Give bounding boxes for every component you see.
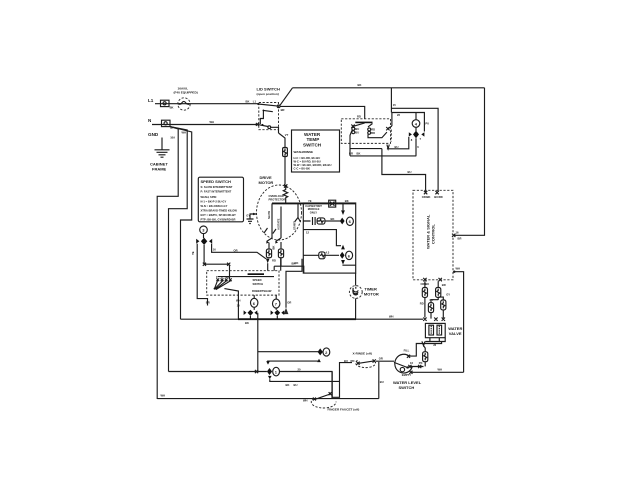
box 4 outline bbox=[392, 113, 425, 132]
wire control to right vertical bbox=[454, 272, 463, 373]
svg-text:OR: OR bbox=[234, 249, 238, 253]
svg-text:SWITCH: SWITCH bbox=[303, 143, 322, 148]
L-link row bbox=[303, 230, 341, 246]
wire neutral drop B bbox=[169, 127, 188, 372]
svg-text:BR: BR bbox=[458, 237, 462, 241]
fuse 16A/UL F40 bbox=[178, 98, 190, 110]
resistor R6 bbox=[266, 249, 271, 258]
contact on box left bbox=[386, 126, 392, 130]
connector diamonds speed left bbox=[244, 310, 258, 316]
svg-text:BU/RD: BU/RD bbox=[434, 195, 443, 199]
winding AGITATE bbox=[280, 207, 282, 239]
svg-text:VT: VT bbox=[285, 133, 289, 137]
svg-text:16: 16 bbox=[456, 231, 459, 235]
svg-text:16: 16 bbox=[213, 247, 216, 251]
diamond row2 bbox=[340, 252, 345, 259]
circle 2 bbox=[323, 348, 330, 356]
wire link 2 to 1 bbox=[268, 361, 319, 363]
svg-text:26: 26 bbox=[397, 113, 400, 117]
wire fuse to motor bbox=[284, 157, 286, 185]
wire circle4 vertical bbox=[415, 113, 417, 156]
svg-text:WH: WH bbox=[389, 315, 394, 319]
wire neutral into switch bbox=[224, 289, 238, 320]
wire triangle to right edge bbox=[343, 264, 356, 267]
lid switch lower contact bbox=[256, 123, 279, 133]
terminal crosses top bbox=[424, 191, 439, 194]
control dashed box bbox=[413, 190, 453, 279]
resistor RV4 bbox=[441, 300, 446, 310]
svg-text:SWITCH: SWITCH bbox=[399, 385, 415, 390]
winding SLOW bbox=[271, 203, 273, 238]
svg-text:BU: BU bbox=[395, 145, 399, 149]
wire valve to resistor R5 bbox=[424, 346, 426, 352]
speed switch inner bus bbox=[218, 276, 274, 278]
terminal X control right bbox=[452, 234, 455, 237]
winding START bbox=[297, 203, 299, 217]
svg-text:WH: WH bbox=[456, 266, 461, 270]
circle 7 speed bbox=[273, 299, 280, 308]
svg-text:(open position): (open position) bbox=[257, 92, 279, 96]
svg-text:GND: GND bbox=[148, 132, 159, 137]
svg-text:7: 7 bbox=[275, 302, 278, 307]
circle 6 speed bbox=[251, 298, 258, 307]
svg-text:PK: PK bbox=[419, 361, 423, 365]
svg-text:OR/BK: OR/BK bbox=[422, 195, 431, 199]
triangle above row1 bbox=[341, 210, 345, 215]
svg-text:FRAME: FRAME bbox=[152, 167, 167, 172]
svg-text:12: 12 bbox=[306, 231, 309, 235]
connector diamonds speed right bbox=[271, 310, 285, 316]
svg-text:(F40 EQUIPPED): (F40 EQUIPPED) bbox=[174, 91, 198, 95]
svg-text:WH: WH bbox=[182, 131, 187, 135]
svg-text:S: SLOW INTERMITTENT: S: SLOW INTERMITTENT bbox=[201, 185, 233, 189]
svg-text:XTRA BRAVO-TIMED KILOW: XTRA BRAVO-TIMED KILOW bbox=[201, 209, 238, 213]
connector triangles and diamond bbox=[409, 132, 412, 136]
x-rinse contact bbox=[356, 359, 376, 367]
wire lid switch to top bus bbox=[280, 88, 293, 106]
wire bottom bus bbox=[157, 398, 379, 400]
svg-text:BU: BU bbox=[380, 380, 384, 384]
wire valve chain left bbox=[425, 281, 443, 318]
wire YE drop bbox=[197, 244, 207, 306]
svg-text:MOTOR: MOTOR bbox=[364, 292, 379, 297]
svg-text:TEMP: TEMP bbox=[307, 137, 320, 142]
wire N to lid switch bbox=[152, 124, 257, 126]
svg-text:L1: L1 bbox=[253, 100, 257, 104]
connector triangle below R6 bbox=[266, 259, 270, 264]
solenoid cold bbox=[437, 325, 442, 335]
contact X-X bbox=[203, 263, 230, 266]
svg-text:P: FAST INTERMITTENT: P: FAST INTERMITTENT bbox=[201, 189, 232, 193]
svg-text:SPEED: SPEED bbox=[253, 278, 262, 282]
svg-text:7: 7 bbox=[420, 137, 422, 141]
wire GND drop bbox=[161, 138, 163, 150]
svg-text:X-RINSE (off): X-RINSE (off) bbox=[353, 352, 372, 356]
wire RD into box right bbox=[280, 258, 282, 271]
wire top to triangle bbox=[342, 203, 344, 210]
svg-text:4: 4 bbox=[415, 121, 418, 126]
resistor row1 bbox=[317, 218, 325, 224]
resistor RV2 bbox=[436, 288, 441, 298]
svg-text:BR: BR bbox=[349, 151, 353, 155]
pressure switch arc bbox=[395, 354, 413, 373]
svg-text:N-1 = BK-P-2 BU-GY: N-1 = BK-P-2 BU-GY bbox=[201, 200, 227, 204]
wire row1 bbox=[325, 220, 340, 222]
svg-text:BK: BK bbox=[331, 217, 335, 221]
wire line1 horiz bbox=[169, 372, 333, 400]
valve V contact bbox=[422, 341, 425, 345]
svg-text:8: 8 bbox=[411, 138, 413, 142]
motor ground wire GY bbox=[250, 214, 257, 219]
svg-text:BR: BR bbox=[206, 300, 210, 304]
svg-text:20: 20 bbox=[298, 368, 301, 372]
legend box bbox=[198, 177, 243, 222]
svg-text:W-N = BK-OR/GO-GY: W-N = BK-OR/GO-GY bbox=[201, 204, 228, 208]
speed switch terminals bbox=[216, 278, 231, 281]
valve box bbox=[425, 323, 445, 337]
svg-text:GY: GY bbox=[430, 298, 434, 302]
svg-text:W-W = BU-BK, BR-RD, BK-BU: W-W = BU-BK, BR-RD, BK-BU bbox=[294, 163, 332, 167]
wire center drop BK bbox=[257, 319, 259, 371]
finger faucet contact bbox=[311, 392, 336, 408]
svg-text:BU: BU bbox=[294, 383, 298, 387]
svg-text:P: P bbox=[216, 275, 218, 279]
wire neutral drop A bbox=[157, 127, 178, 399]
wire 15 from top bus bbox=[391, 88, 438, 192]
svg-text:H-C = BU-RD, BU-BU: H-C = BU-RD, BU-BU bbox=[294, 156, 321, 160]
svg-text:GY: GY bbox=[446, 293, 450, 297]
wire contact B out bbox=[368, 132, 387, 138]
svg-text:SLOW: SLOW bbox=[267, 210, 271, 219]
svg-text:BU: BU bbox=[355, 127, 359, 131]
svg-text:10: 10 bbox=[237, 303, 240, 307]
wire L1 to lid switch bbox=[155, 103, 258, 105]
svg-text:CONTROL: CONTROL bbox=[431, 224, 436, 244]
motor contact V right bbox=[295, 218, 301, 223]
svg-text:6: 6 bbox=[348, 253, 351, 258]
svg-text:BK: BK bbox=[226, 275, 230, 279]
svg-text:WASH/RINSE: WASH/RINSE bbox=[294, 150, 314, 154]
water temp switch box bbox=[292, 130, 340, 172]
svg-text:RD: RD bbox=[420, 302, 424, 306]
svg-text:BK: BK bbox=[295, 261, 299, 265]
svg-text:BK: BK bbox=[245, 321, 249, 325]
svg-text:3: 3 bbox=[202, 228, 205, 233]
svg-text:SPEED SWITCH: SPEED SWITCH bbox=[201, 179, 232, 184]
svg-text:6: 6 bbox=[349, 219, 352, 224]
svg-text:WH: WH bbox=[236, 298, 241, 302]
wire circle3 to diamond bbox=[203, 234, 205, 238]
module box bbox=[303, 203, 355, 273]
motor top terminal bbox=[284, 184, 287, 187]
svg-text:2: 2 bbox=[325, 350, 328, 355]
svg-text:WASH, SPIN: WASH, SPIN bbox=[201, 195, 217, 199]
svg-text:WH: WH bbox=[438, 367, 443, 371]
circle 1 bbox=[273, 367, 280, 376]
svg-text:L1: L1 bbox=[148, 98, 154, 103]
svg-text:PTP: BK-BK, GY/BN/RD-BR: PTP: BK-BK, GY/BN/RD-BR bbox=[201, 217, 236, 221]
circle 4 bbox=[412, 120, 420, 128]
row2 wire bbox=[303, 254, 339, 256]
circle 3 bbox=[200, 226, 208, 234]
svg-text:YE: YE bbox=[191, 251, 195, 255]
wire branch to circle2 bbox=[258, 351, 318, 353]
resistor R5 bbox=[423, 352, 428, 362]
thermal fuse bbox=[283, 148, 288, 157]
valve bottom plate bbox=[425, 338, 445, 342]
svg-text:VALVE: VALVE bbox=[449, 331, 462, 336]
svg-text:START: START bbox=[293, 221, 297, 230]
timer contact B bbox=[368, 124, 375, 136]
terminal right edge bbox=[453, 271, 455, 273]
svg-text:BK: BK bbox=[246, 100, 250, 104]
circle 6 row1 bbox=[346, 217, 353, 225]
wire module to timer motor bbox=[355, 273, 357, 319]
svg-text:W-C = BU-RD, BU-BU: W-C = BU-RD, BU-BU bbox=[294, 160, 321, 164]
triangle below 2 bbox=[317, 359, 321, 362]
wires box to circles bbox=[254, 295, 276, 310]
svg-text:BU: BU bbox=[408, 170, 412, 174]
valve terminal crosses bbox=[423, 318, 445, 321]
row2 resistor bbox=[319, 252, 325, 259]
speed switch dashed box bbox=[207, 271, 279, 295]
svg-text:PU: PU bbox=[425, 122, 429, 126]
ground cabinet frame bbox=[155, 150, 170, 157]
timer cam bar bbox=[355, 122, 372, 124]
wires diamonds to bus bbox=[250, 313, 277, 320]
wire diamond drop bbox=[203, 245, 205, 264]
wire R5 to PK row bbox=[424, 362, 426, 367]
lid switch box bbox=[259, 103, 279, 130]
svg-text:6: 6 bbox=[253, 301, 256, 306]
timer contact box bbox=[341, 119, 390, 144]
diamond 1 bbox=[267, 368, 272, 375]
svg-text:BR: BR bbox=[442, 283, 446, 287]
svg-text:FINGER FAUCET (off): FINGER FAUCET (off) bbox=[328, 408, 360, 412]
svg-text:BR: BR bbox=[281, 108, 285, 112]
svg-text:RD: RD bbox=[272, 258, 276, 262]
svg-text:BK: BK bbox=[358, 83, 362, 87]
wire x-rinse to water level bbox=[376, 360, 394, 362]
switch arm bbox=[394, 362, 407, 367]
wire OR to motor bbox=[212, 244, 266, 259]
wire into box left bbox=[273, 266, 275, 271]
svg-text:LID SWITCH: LID SWITCH bbox=[257, 87, 280, 92]
ground motor bbox=[247, 219, 254, 224]
resistor RV3 bbox=[428, 303, 433, 313]
svg-text:MOTOR: MOTOR bbox=[259, 180, 274, 185]
empty contact X bbox=[409, 371, 412, 374]
svg-text:WH: WH bbox=[210, 120, 215, 124]
svg-text:ROBERTSHAW: ROBERTSHAW bbox=[252, 289, 272, 293]
terminal X on line 1 bbox=[255, 370, 258, 373]
connector N terminal bbox=[162, 120, 171, 126]
terminal crosses bottom bbox=[423, 278, 442, 281]
triangle below 1 bbox=[268, 376, 272, 379]
svg-text:BK: BK bbox=[272, 246, 276, 250]
wire top bus bbox=[293, 87, 485, 89]
svg-text:6: 6 bbox=[417, 145, 419, 149]
row1: capacitor bbox=[303, 217, 319, 225]
triangle below row2 bbox=[341, 260, 345, 265]
drive motor ellipse bbox=[257, 185, 302, 240]
triangle above 1 bbox=[266, 361, 270, 364]
svg-text:15: 15 bbox=[393, 103, 396, 107]
svg-text:PROTECTOR: PROTECTOR bbox=[269, 197, 286, 201]
svg-text:C-C = BU-BK: C-C = BU-BK bbox=[294, 167, 311, 171]
svg-text:ONLY: ONLY bbox=[310, 210, 317, 214]
svg-text:OVERLOAD: OVERLOAD bbox=[269, 194, 284, 198]
wire x-rinse left drop bbox=[332, 363, 352, 398]
cam bar bbox=[248, 273, 264, 275]
wire R6 to speed switch bbox=[267, 263, 269, 271]
connector diamond 3 bbox=[201, 238, 207, 245]
wire to speed switch bbox=[228, 264, 231, 279]
lid switch upper contact bbox=[257, 103, 280, 108]
bus WH mid bbox=[181, 318, 424, 320]
resistor RV1 bbox=[422, 288, 427, 298]
wires motor to resistors bbox=[269, 242, 281, 249]
wire to BU line bbox=[382, 149, 426, 192]
wire pressure feed vertical bbox=[378, 362, 380, 399]
svg-text:RD: RD bbox=[357, 115, 361, 119]
svg-text:EXT = BK/PU, SP400 RD-BT: EXT = BK/PU, SP400 RD-BT bbox=[201, 213, 237, 217]
plug arrow OR bbox=[284, 308, 289, 314]
svg-text:N: N bbox=[148, 118, 152, 123]
motor bottom contacts bbox=[264, 228, 281, 242]
diamond row1 bbox=[340, 218, 345, 225]
timer motor circle bbox=[349, 286, 362, 299]
svg-text:WH: WH bbox=[161, 394, 166, 398]
lid switch inner links bbox=[260, 110, 273, 124]
svg-text:1: 1 bbox=[275, 370, 278, 375]
svg-text:BU: BU bbox=[355, 131, 359, 135]
fill contact X bbox=[407, 355, 410, 358]
svg-text:OR: OR bbox=[287, 300, 291, 304]
svg-text:BK: BK bbox=[345, 199, 349, 203]
wire right loop down bbox=[454, 88, 484, 236]
svg-text:BK: BK bbox=[286, 383, 290, 387]
svg-text:10A: 10A bbox=[170, 136, 175, 140]
circle 6 row2 bbox=[346, 251, 353, 259]
wire neutral drop C bbox=[170, 127, 192, 320]
svg-text:WH: WH bbox=[303, 399, 308, 403]
svg-text:BK: BK bbox=[357, 151, 361, 155]
module exit zigzag to OR plug bbox=[286, 259, 302, 308]
diamond 2 bbox=[318, 348, 323, 355]
svg-text:BK: BK bbox=[170, 106, 174, 110]
svg-text:YE: YE bbox=[308, 199, 312, 203]
svg-text:16: 16 bbox=[410, 361, 413, 365]
solenoid hot bbox=[429, 325, 434, 335]
svg-text:RD: RD bbox=[371, 128, 375, 132]
svg-text:SWITCH: SWITCH bbox=[253, 282, 264, 286]
svg-text:4.3: 4.3 bbox=[326, 250, 330, 254]
bus thick segment bbox=[238, 318, 356, 320]
svg-text:OR: OR bbox=[379, 356, 383, 360]
wire below 1 bbox=[270, 379, 340, 381]
svg-text:GY: GY bbox=[246, 213, 250, 217]
overload protector bbox=[283, 186, 287, 203]
switch blades bbox=[215, 280, 232, 290]
terminal square on bus bbox=[329, 200, 336, 207]
wire BR from lid switch to timer box bbox=[280, 106, 365, 119]
motor internal bus bbox=[272, 202, 356, 204]
wire lid switch to thermal fuse bbox=[279, 133, 286, 148]
wire empty to WH bus bbox=[411, 371, 464, 373]
wire BK lower bbox=[350, 149, 416, 156]
svg-text:AGITATE: AGITATE bbox=[277, 218, 281, 230]
svg-text:RD: RD bbox=[371, 131, 375, 135]
resistor R7 bbox=[278, 249, 283, 258]
triangle mid bbox=[341, 245, 345, 250]
wire contact A out bbox=[350, 130, 352, 156]
PK row wires bbox=[407, 367, 423, 368]
timer contact A bbox=[351, 123, 364, 135]
svg-text:FILL: FILL bbox=[404, 348, 410, 352]
wire R7 to BK line bbox=[274, 258, 304, 273]
connector L1 terminal bbox=[161, 100, 170, 106]
wire valve right to FILL bbox=[409, 342, 442, 357]
